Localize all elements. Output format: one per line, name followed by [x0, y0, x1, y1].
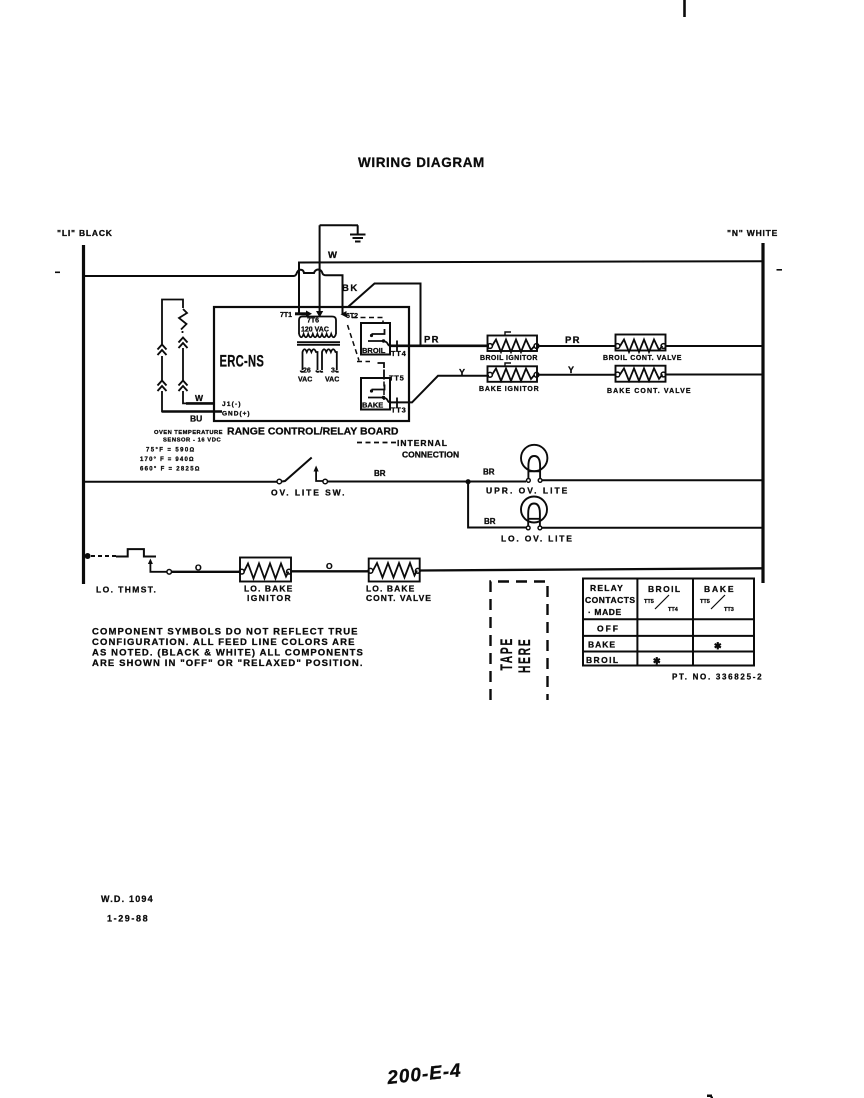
svg-text:· MADE: · MADE: [588, 607, 622, 617]
svg-text:Y: Y: [459, 368, 465, 378]
svg-text:TAPE: TAPE: [496, 637, 515, 671]
svg-text:ARE SHOWN IN "OFF" OR "RELAXED: ARE SHOWN IN "OFF" OR "RELAXED" POSITION…: [92, 658, 364, 669]
svg-text:OFF: OFF: [597, 624, 620, 634]
svg-text:"N" WHITE: "N" WHITE: [727, 228, 778, 238]
svg-text:7T6: 7T6: [307, 318, 319, 325]
svg-text:OV. LITE SW.: OV. LITE SW.: [271, 488, 346, 498]
svg-text:RELAY: RELAY: [590, 583, 624, 593]
svg-text:HERE: HERE: [514, 637, 533, 673]
svg-text:GND(+): GND(+): [222, 411, 251, 418]
svg-text:CONFIGURATION. ALL FEED LINE: CONFIGURATION. ALL FEED LINE COLORS ARE: [92, 637, 356, 648]
svg-text:TT4: TT4: [391, 349, 407, 358]
svg-text:BAKE: BAKE: [704, 584, 735, 594]
svg-text:PT. NO. 336825-2: PT. NO. 336825-2: [672, 673, 763, 682]
svg-text:LO. BAKE: LO. BAKE: [366, 584, 415, 594]
svg-text:VAC: VAC: [325, 377, 339, 384]
svg-text:IGNITOR: IGNITOR: [247, 593, 292, 603]
svg-text:BAKE IGNITOR: BAKE IGNITOR: [479, 386, 539, 393]
svg-text:✱: ✱: [714, 641, 722, 651]
svg-text:Y: Y: [568, 365, 574, 375]
svg-text:INTERNAL: INTERNAL: [397, 438, 448, 448]
svg-text:TT3: TT3: [391, 406, 406, 415]
svg-text:BROIL: BROIL: [648, 584, 681, 594]
svg-text:TT3: TT3: [724, 607, 734, 613]
svg-text:W: W: [195, 393, 204, 403]
svg-text:SENSOR - 16 VDC: SENSOR - 16 VDC: [163, 438, 221, 444]
svg-text:75°F = 590Ω: 75°F = 590Ω: [146, 448, 196, 454]
svg-text:COMPONENT SYMBOLS DO NOT REFLE: COMPONENT SYMBOLS DO NOT REFLECT TRUE: [92, 627, 359, 638]
svg-text:OVEN TEMPERATURE: OVEN TEMPERATURE: [154, 430, 223, 436]
svg-text:CONTACTS: CONTACTS: [585, 595, 636, 605]
svg-text:BR: BR: [374, 469, 386, 478]
svg-text:WIRING DIAGRAM: WIRING DIAGRAM: [358, 155, 485, 170]
svg-text:BROIL IGNITOR: BROIL IGNITOR: [480, 355, 538, 362]
svg-text:W.D. 1094: W.D. 1094: [101, 894, 154, 904]
svg-text:BK: BK: [342, 283, 359, 294]
svg-text:170° F = 940Ω: 170° F = 940Ω: [140, 457, 195, 463]
svg-text:PR: PR: [424, 335, 440, 346]
svg-text:VAC: VAC: [298, 377, 312, 384]
svg-text:BROIL: BROIL: [362, 346, 386, 355]
svg-text:TT4: TT4: [668, 607, 679, 613]
svg-text:BAKE: BAKE: [362, 401, 383, 410]
svg-text:200-E-4: 200-E-4: [385, 1060, 462, 1089]
svg-text:LO. BAKE: LO. BAKE: [244, 584, 293, 594]
svg-text:W: W: [328, 250, 337, 261]
svg-text:3: 3: [331, 368, 335, 375]
svg-text:6T2: 6T2: [346, 313, 358, 320]
svg-text:LO. THMST.: LO. THMST.: [96, 585, 157, 595]
svg-text:BROIL: BROIL: [586, 655, 619, 665]
svg-text:CONNECTION: CONNECTION: [402, 450, 459, 460]
svg-text:ERC-NS: ERC-NS: [220, 352, 265, 371]
svg-text:BAKE: BAKE: [588, 640, 616, 650]
svg-text:660° F = 2825Ω: 660° F = 2825Ω: [140, 467, 201, 473]
svg-text:BR: BR: [483, 468, 495, 477]
svg-text:TT5: TT5: [644, 599, 654, 605]
svg-text:7T1: 7T1: [280, 312, 292, 319]
svg-text:J1(-): J1(-): [222, 401, 242, 408]
svg-text:"LI" BLACK: "LI" BLACK: [57, 228, 113, 238]
svg-text:AS NOTED. (BLACK & WHITE) ALL: AS NOTED. (BLACK & WHITE) ALL COMPONENTS: [92, 648, 364, 659]
svg-text:UPR. OV. LITE: UPR. OV. LITE: [486, 486, 569, 496]
svg-text:LO. OV. LITE: LO. OV. LITE: [501, 534, 574, 544]
svg-text:BROIL CONT. VALVE: BROIL CONT. VALVE: [603, 355, 682, 362]
svg-text:O: O: [195, 563, 202, 573]
svg-text:BR: BR: [484, 517, 496, 526]
svg-text:BU: BU: [190, 414, 202, 424]
svg-text:TT5: TT5: [389, 374, 404, 383]
svg-text:TT5: TT5: [700, 599, 710, 605]
svg-text:26: 26: [303, 368, 311, 375]
svg-text:1-29-88: 1-29-88: [107, 914, 149, 924]
svg-text:CONT. VALVE: CONT. VALVE: [366, 593, 432, 603]
svg-text:O: O: [326, 561, 333, 571]
svg-text:RANGE CONTROL/RELAY BOARD: RANGE CONTROL/RELAY BOARD: [227, 426, 399, 438]
svg-text:PR: PR: [565, 335, 581, 346]
svg-text:✱: ✱: [653, 656, 661, 666]
svg-text:120 VAC: 120 VAC: [301, 327, 329, 334]
svg-text:BAKE CONT. VALVE: BAKE CONT. VALVE: [607, 388, 692, 395]
